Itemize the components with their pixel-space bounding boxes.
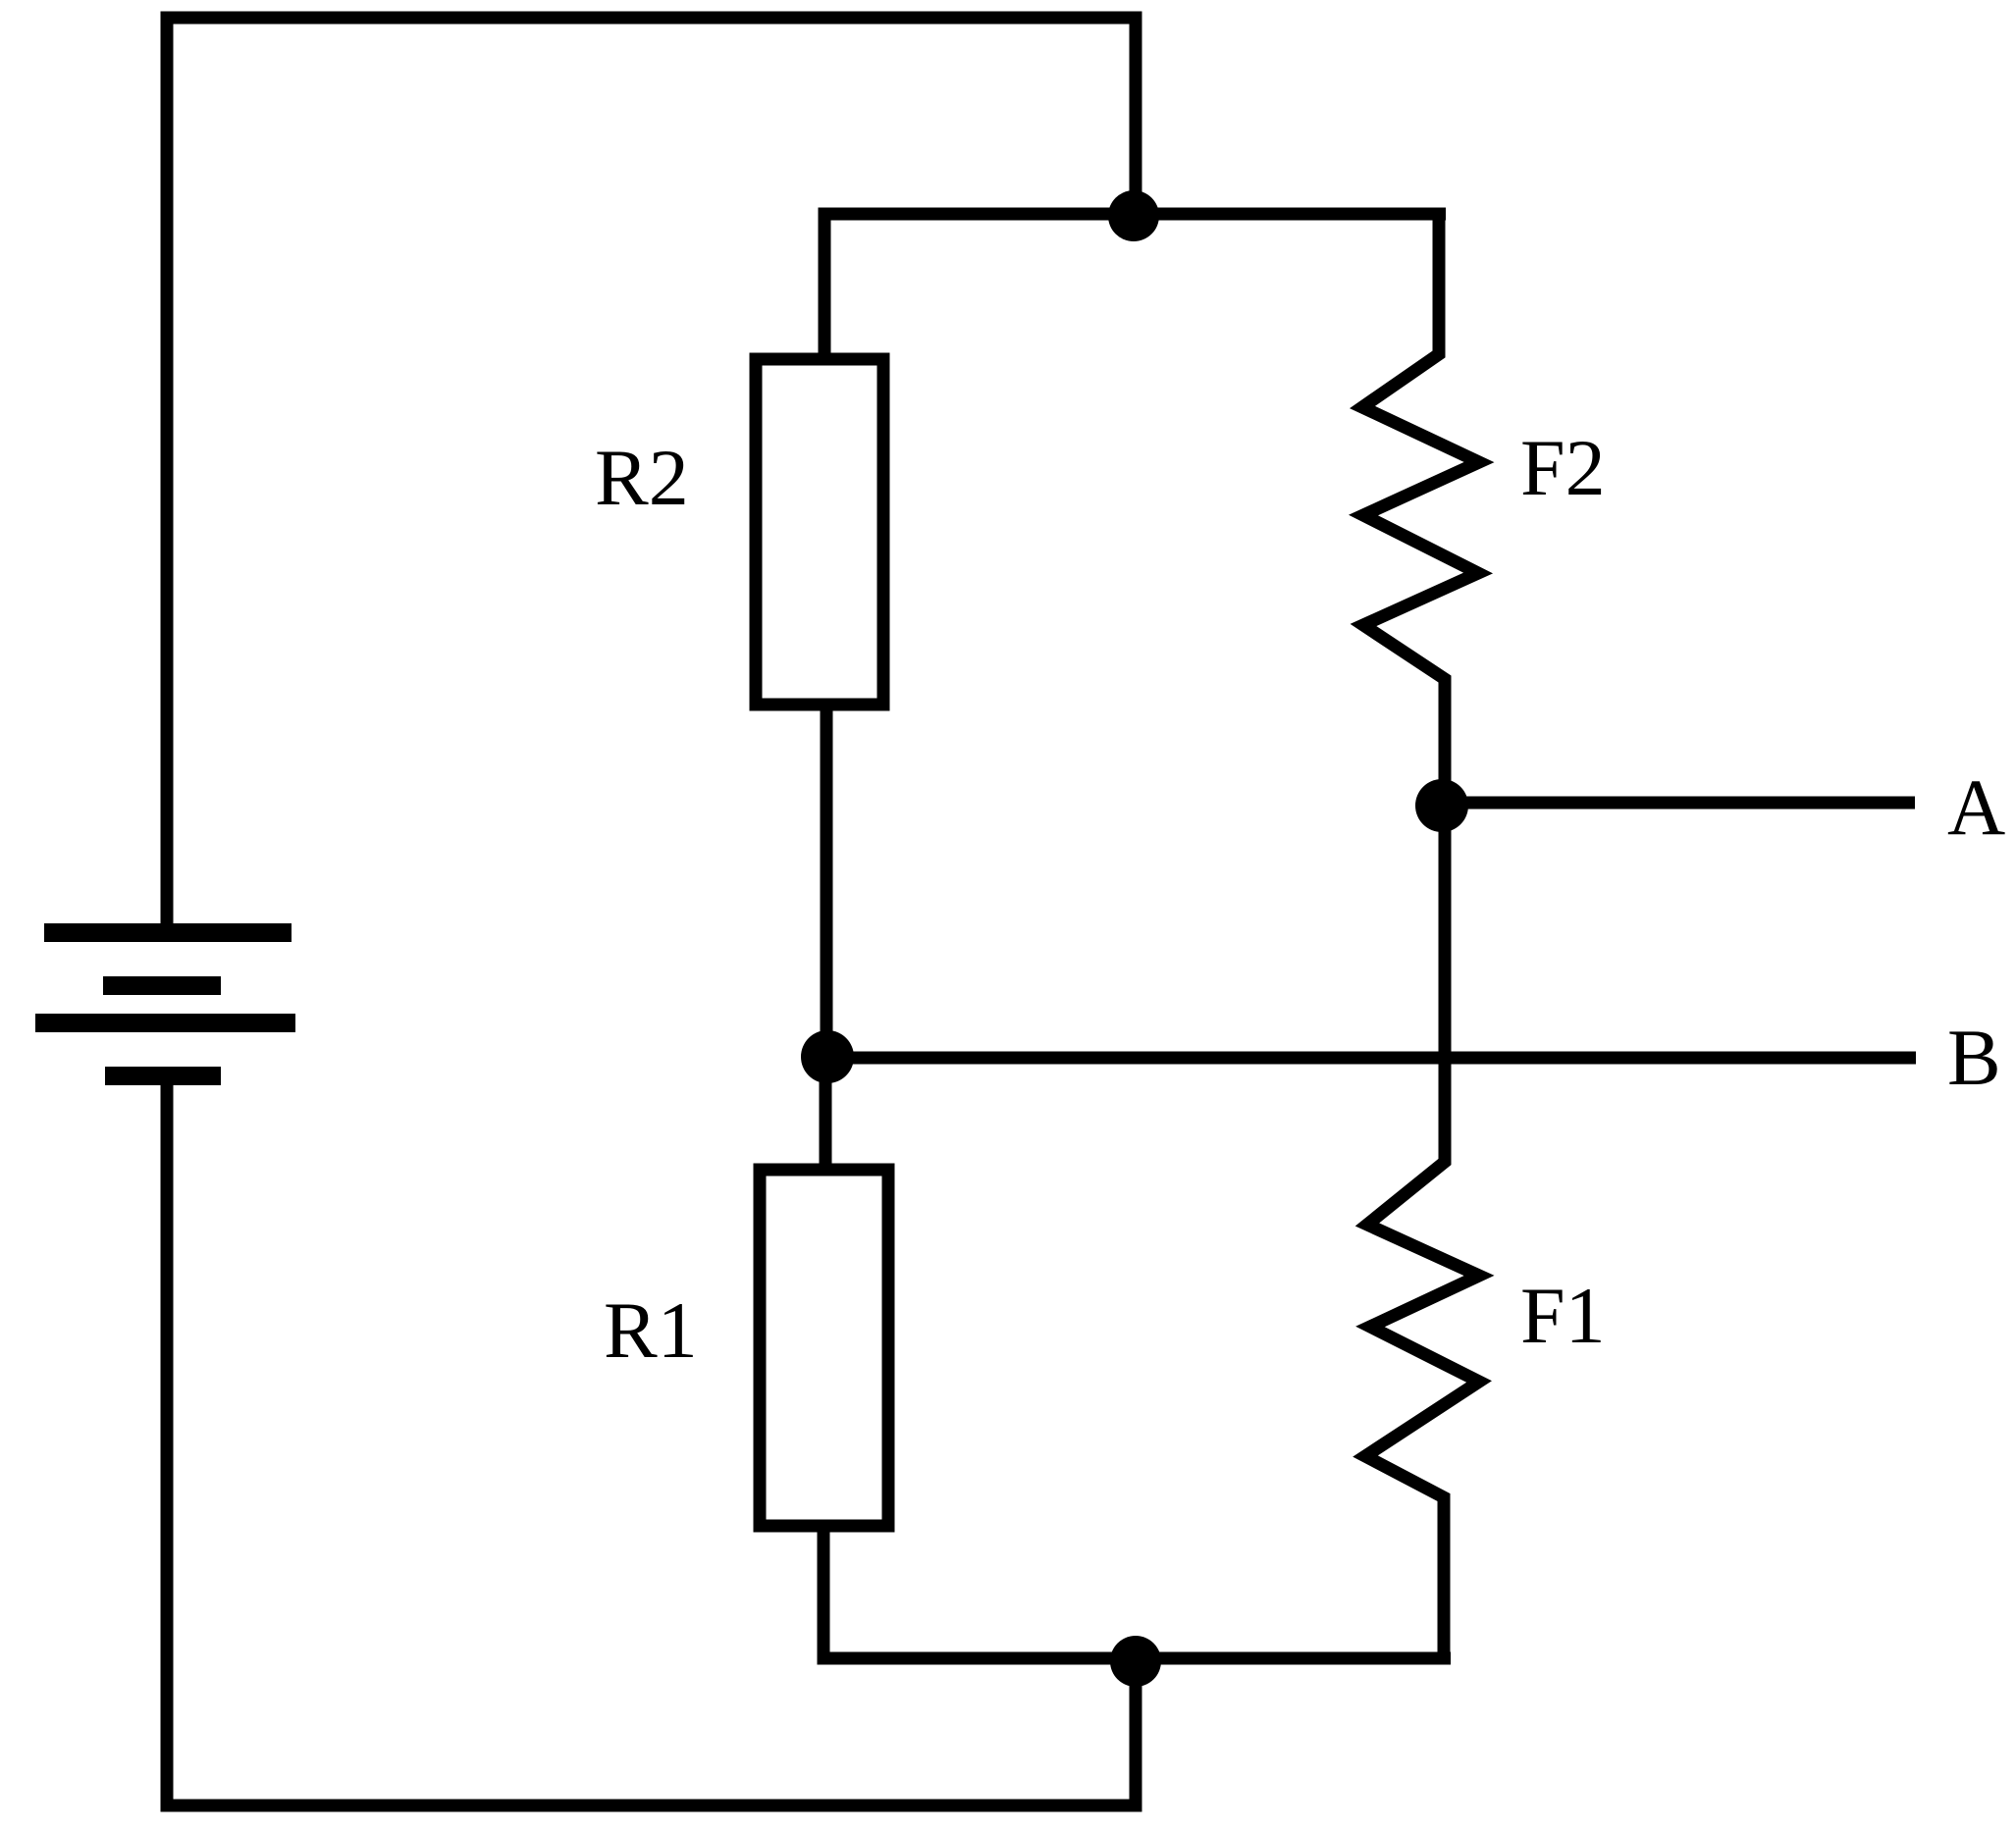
svg-text:B: B: [1947, 1013, 2001, 1102]
svg-text:R1: R1: [604, 1285, 698, 1375]
wire: inner top rail with R2 top lead: [824, 214, 1446, 365]
battery B1: [35, 923, 295, 1085]
svg-text:F2: F2: [1520, 423, 1606, 512]
junction: bottom node: [1110, 1636, 1161, 1687]
resistor R2: [756, 359, 883, 705]
resistor F1: [1365, 806, 1479, 1658]
junction: node A: [1415, 779, 1468, 832]
svg-text:R2: R2: [595, 433, 689, 522]
wire: battery negative lead, bottom rail, riser to bottom node: [167, 1075, 1136, 1805]
svg-text:A: A: [1947, 762, 2005, 852]
resistor R1: [760, 1170, 888, 1526]
junction: node B: [801, 1030, 854, 1083]
resistor F2: [1362, 214, 1479, 806]
wire: R2 bottom lead to node B: [821, 705, 833, 1057]
wire: node B to terminal B: [827, 1052, 1916, 1065]
wire: node A to terminal A: [1442, 797, 1915, 810]
svg-text:F1: F1: [1520, 1271, 1606, 1360]
wire: R1 bottom lead and inner bottom rail: [823, 1520, 1451, 1658]
junction: top node: [1108, 190, 1159, 241]
wire: node B to R1 top lead: [820, 1057, 832, 1170]
wire: battery positive lead, top rail, drop to top node: [167, 18, 1136, 932]
